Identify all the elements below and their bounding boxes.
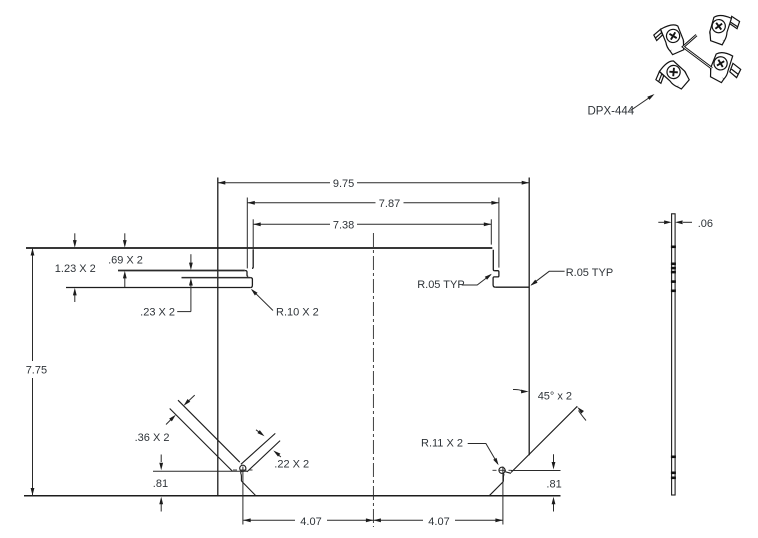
- svg-text:7.38: 7.38: [333, 219, 354, 231]
- svg-text:R.05 TYP: R.05 TYP: [417, 279, 465, 291]
- svg-text:.36 X 2: .36 X 2: [135, 432, 170, 444]
- right .81 extension line: [511, 470, 561, 472]
- dimension .22 X 2 arrows: [256, 430, 281, 457]
- dimension .81 right: [553, 454, 555, 511]
- svg-text:.81: .81: [153, 478, 168, 490]
- isometric clip B upper-right: [708, 14, 740, 47]
- side view thin bar: [672, 214, 676, 495]
- right shoulder edge: [495, 286, 529, 288]
- 4.07 extension vertical left: [242, 467, 244, 525]
- part top edge with left extension: [26, 247, 492, 249]
- dimension 45 deg x 2: [513, 389, 586, 420]
- svg-text:.69 X 2: .69 X 2: [108, 255, 143, 267]
- svg-text:R.05 TYP: R.05 TYP: [566, 267, 614, 279]
- dimension 4.07 left: [243, 519, 373, 521]
- dimension 1.23 X 2: [74, 233, 76, 302]
- bottom edge with extensions: [24, 495, 561, 497]
- left .22 slot upper edge: [241, 433, 275, 464]
- dimension 7.75 vertical: [32, 248, 34, 496]
- svg-text:4.07: 4.07: [300, 516, 321, 528]
- left tab second step: [250, 278, 252, 288]
- svg-text:DPX-444: DPX-444: [588, 105, 635, 117]
- svg-text:.06: .06: [698, 218, 713, 230]
- side view edge marks: [671, 246, 676, 480]
- left slot upper edge line: [178, 400, 240, 462]
- 7.87 right extension vertical: [498, 198, 500, 268]
- dimension .06: [658, 221, 692, 223]
- label R.10 X 2 with leader: [252, 290, 273, 311]
- dimension 9.75: [218, 182, 529, 184]
- isometric clip A upper-left: [652, 23, 686, 58]
- left slot lower edge line: [170, 409, 233, 472]
- svg-text:9.75: 9.75: [333, 178, 354, 190]
- dimension .36 X 2 arrows: [166, 395, 195, 424]
- right slot notch: [504, 472, 511, 474]
- dimension 4.07 right: [373, 519, 503, 521]
- left shoulder edge with extension: [66, 287, 251, 289]
- vertical centerline: [372, 233, 374, 527]
- right outer edge (stops at 45 deg slot): [528, 178, 530, 456]
- dimension .23 X 2 with leader: [177, 254, 191, 311]
- right tab (7.87 step): [493, 271, 499, 288]
- svg-text:.22 X 2: .22 X 2: [274, 458, 309, 470]
- left bottom chamfer diagonal: [241, 481, 255, 496]
- right slot bottom jog: [503, 473, 504, 482]
- svg-text:7.87: 7.87: [379, 198, 400, 210]
- left circle centermark: [233, 469, 253, 471]
- svg-text:45° x 2: 45° x 2: [538, 391, 572, 403]
- left .23 extension line: [182, 277, 251, 279]
- right slot end circle R.11: [499, 467, 505, 473]
- 7.38 left extension vertical: [252, 219, 254, 250]
- svg-text:4.07: 4.07: [428, 516, 449, 528]
- part top-left corner vertical: [252, 250, 253, 268]
- svg-text:7.75: 7.75: [26, 365, 47, 377]
- left slot end circle R.11: [240, 465, 246, 471]
- svg-text:.81: .81: [546, 479, 561, 491]
- dimension 7.38: [253, 223, 491, 225]
- label DPX-444 with leader: [631, 95, 653, 110]
- right circle centermark: [493, 469, 512, 471]
- left .22 slot lower edge: [247, 441, 280, 472]
- isometric clip D lower-left: [652, 58, 692, 98]
- left .69 extension line (thick edge): [118, 270, 245, 272]
- dimension .69 X 2: [124, 233, 126, 287]
- right bottom chamfer diagonal: [489, 482, 503, 496]
- svg-text:R.10 X 2: R.10 X 2: [276, 306, 319, 318]
- label R.05 TYP right with leader: [531, 271, 564, 285]
- dimension .81 left: [160, 455, 162, 512]
- left slot bottom jog: [241, 471, 242, 481]
- isometric clip C lower-right: [708, 50, 744, 86]
- right 45 deg slot edge line: [511, 406, 577, 472]
- svg-text:1.23 X 2: 1.23 X 2: [55, 263, 96, 275]
- 7.87 left extension vertical: [246, 198, 248, 269]
- allen key: [683, 35, 712, 68]
- label R.11 X 2 with leader: [468, 444, 498, 464]
- left tab lower step verticals: [245, 271, 248, 277]
- label R.05 TYP left with leader: [462, 275, 491, 285]
- 4.07 extension vertical right: [502, 467, 504, 525]
- part top-right corner vertical: [493, 250, 494, 271]
- dimension 7.87: [247, 202, 499, 204]
- 7.38 right extension vertical: [490, 219, 492, 244]
- left outer edge (with extension up to 9.75 dim): [217, 178, 219, 496]
- svg-text:.23 X 2: .23 X 2: [140, 306, 175, 318]
- left .81 extension line: [153, 470, 247, 472]
- svg-text:R.11 X 2: R.11 X 2: [421, 438, 463, 450]
